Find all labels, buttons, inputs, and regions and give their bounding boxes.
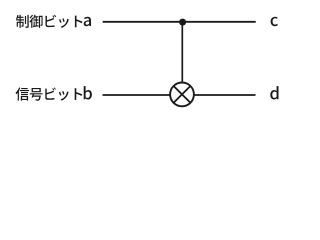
wire: vertical control-to-target link [181,22,183,83]
wire: top control line from a to c [103,21,256,23]
XOR target gate circle [170,83,194,107]
control dot (CNOT control node) [179,19,186,26]
node b (signal input) label [84,86,92,99]
wire: bottom signal line from b to XOR gate [103,94,171,96]
wire: bottom signal line from XOR gate to d [195,94,256,96]
node d (signal output) label [270,86,278,99]
node c (control output) label [271,17,278,27]
XOR gate cross stroke 1 [174,86,191,103]
label: signal bit text 信号ビット [16,87,83,100]
XOR gate cross stroke 2 [174,86,191,103]
label: control bit text 制御ビット [16,15,83,28]
node a (control input) label [84,17,91,27]
